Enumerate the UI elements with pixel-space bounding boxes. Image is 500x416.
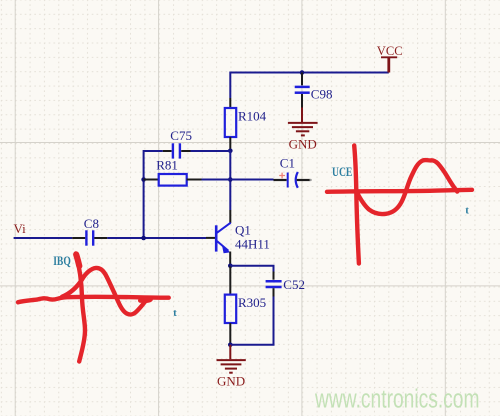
svg-text:UCE: UCE bbox=[332, 164, 352, 179]
wire collector branch vertical middle bbox=[229, 151, 231, 210]
node junction at C98 tap bbox=[300, 70, 305, 75]
wire C75 feedback top bbox=[144, 151, 163, 238]
wire C75 to collector node bbox=[191, 150, 231, 152]
wire output node to C1 bbox=[230, 179, 273, 181]
annotation UCE sine curve bbox=[356, 160, 457, 214]
svg-text:Q1: Q1 bbox=[235, 222, 251, 237]
svg-text:C8: C8 bbox=[84, 216, 99, 231]
svg-text:GND: GND bbox=[289, 137, 317, 152]
annotation IBQ waveform axes bbox=[18, 254, 169, 362]
capacitor C75 bbox=[163, 128, 192, 159]
svg-text:C1: C1 bbox=[280, 156, 295, 171]
capacitor C1 (polarized) bbox=[274, 156, 312, 188]
svg-text:C98: C98 bbox=[311, 87, 333, 102]
node junction R104 bottom / C75 bbox=[228, 149, 233, 154]
svg-text:GND: GND bbox=[217, 374, 245, 389]
wire input from Vi bbox=[14, 237, 73, 239]
resistor R81 bbox=[144, 158, 202, 186]
power symbol VCC bbox=[377, 43, 403, 73]
wire base pin bbox=[206, 237, 215, 239]
node junction left rail / R81 bbox=[141, 177, 146, 182]
wire C52 bottom to ground node bbox=[230, 297, 273, 345]
wire R81 to collector node bbox=[202, 179, 231, 181]
annotation UCE waveform axes bbox=[327, 146, 472, 264]
svg-text:t: t bbox=[465, 204, 469, 216]
capacitor C52 bbox=[266, 272, 305, 297]
svg-text:R104: R104 bbox=[238, 108, 267, 123]
svg-text:Vi: Vi bbox=[14, 221, 27, 236]
wire collector branch vertical upper bbox=[229, 72, 231, 99]
svg-text:R305: R305 bbox=[238, 295, 266, 310]
svg-text:R81: R81 bbox=[156, 158, 178, 173]
svg-text:C52: C52 bbox=[283, 277, 305, 292]
svg-text:www.cntronics.com: www.cntronics.com bbox=[314, 385, 479, 413]
svg-text:C75: C75 bbox=[170, 128, 192, 143]
transistor Q1 bbox=[216, 222, 270, 253]
wire top rail from collector branch to VCC bbox=[230, 72, 388, 74]
node junction R81 / C1 / collector bbox=[228, 177, 233, 182]
svg-text:VCC: VCC bbox=[377, 43, 403, 58]
resistor R104 bbox=[225, 98, 267, 151]
node junction ground bbox=[228, 343, 233, 348]
wire collector pin bbox=[229, 210, 231, 223]
wire emitter pin bbox=[229, 252, 231, 266]
wire emitter node to C52 bbox=[230, 266, 273, 272]
capacitor C8 bbox=[72, 216, 107, 246]
svg-text:IBQ: IBQ bbox=[53, 253, 71, 268]
annotation IBQ sine curve bbox=[62, 268, 151, 315]
wire C8 to base node bbox=[107, 237, 206, 239]
ground GND (bottom) bbox=[217, 345, 246, 389]
resistor R305 bbox=[225, 266, 266, 345]
capacitor C98 bbox=[295, 73, 333, 108]
node junction base / feedback rail bbox=[141, 236, 146, 241]
ground GND (under C98) bbox=[288, 108, 318, 152]
svg-text:44H11: 44H11 bbox=[235, 237, 270, 252]
svg-text:t: t bbox=[173, 307, 177, 319]
node junction emitter bbox=[228, 264, 233, 269]
